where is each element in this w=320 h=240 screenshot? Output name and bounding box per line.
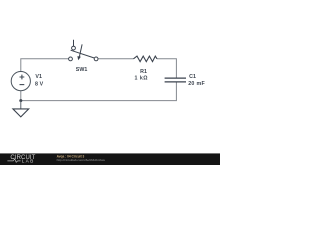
wire: V1 top to switch left terminal [21,59,69,72]
svg-text:LAB: LAB [22,159,35,165]
svg-text:20 mF: 20 mF [188,81,205,87]
wire: junction to ground [20,101,22,109]
svg-text:C1: C1 [189,74,196,80]
svg-text:R1: R1 [140,69,147,75]
banner bar [0,152,220,155]
voltage source V1 [11,72,30,91]
logo waveform [7,159,20,162]
switch SW1 [69,40,98,61]
svg-text:1 kΩ: 1 kΩ [135,76,149,82]
wire: R1 to C1 top [157,59,176,78]
svg-text:V1: V1 [35,74,42,80]
node junction dot [19,99,22,102]
capacitor C1 [165,78,186,82]
wire: C1 bottom to bottom rail [21,82,177,101]
wire: switch right terminal to R1 [98,58,133,60]
svg-text:8 V: 8 V [35,81,44,87]
wire: V1 bottom to junction [20,91,22,101]
ground [13,109,29,117]
resistor R1 [134,56,158,62]
svg-text:SW1: SW1 [76,67,88,73]
svg-text:http://circuitlab.com/c6e933db: http://circuitlab.com/c6e933dbrcfwe [57,158,106,162]
